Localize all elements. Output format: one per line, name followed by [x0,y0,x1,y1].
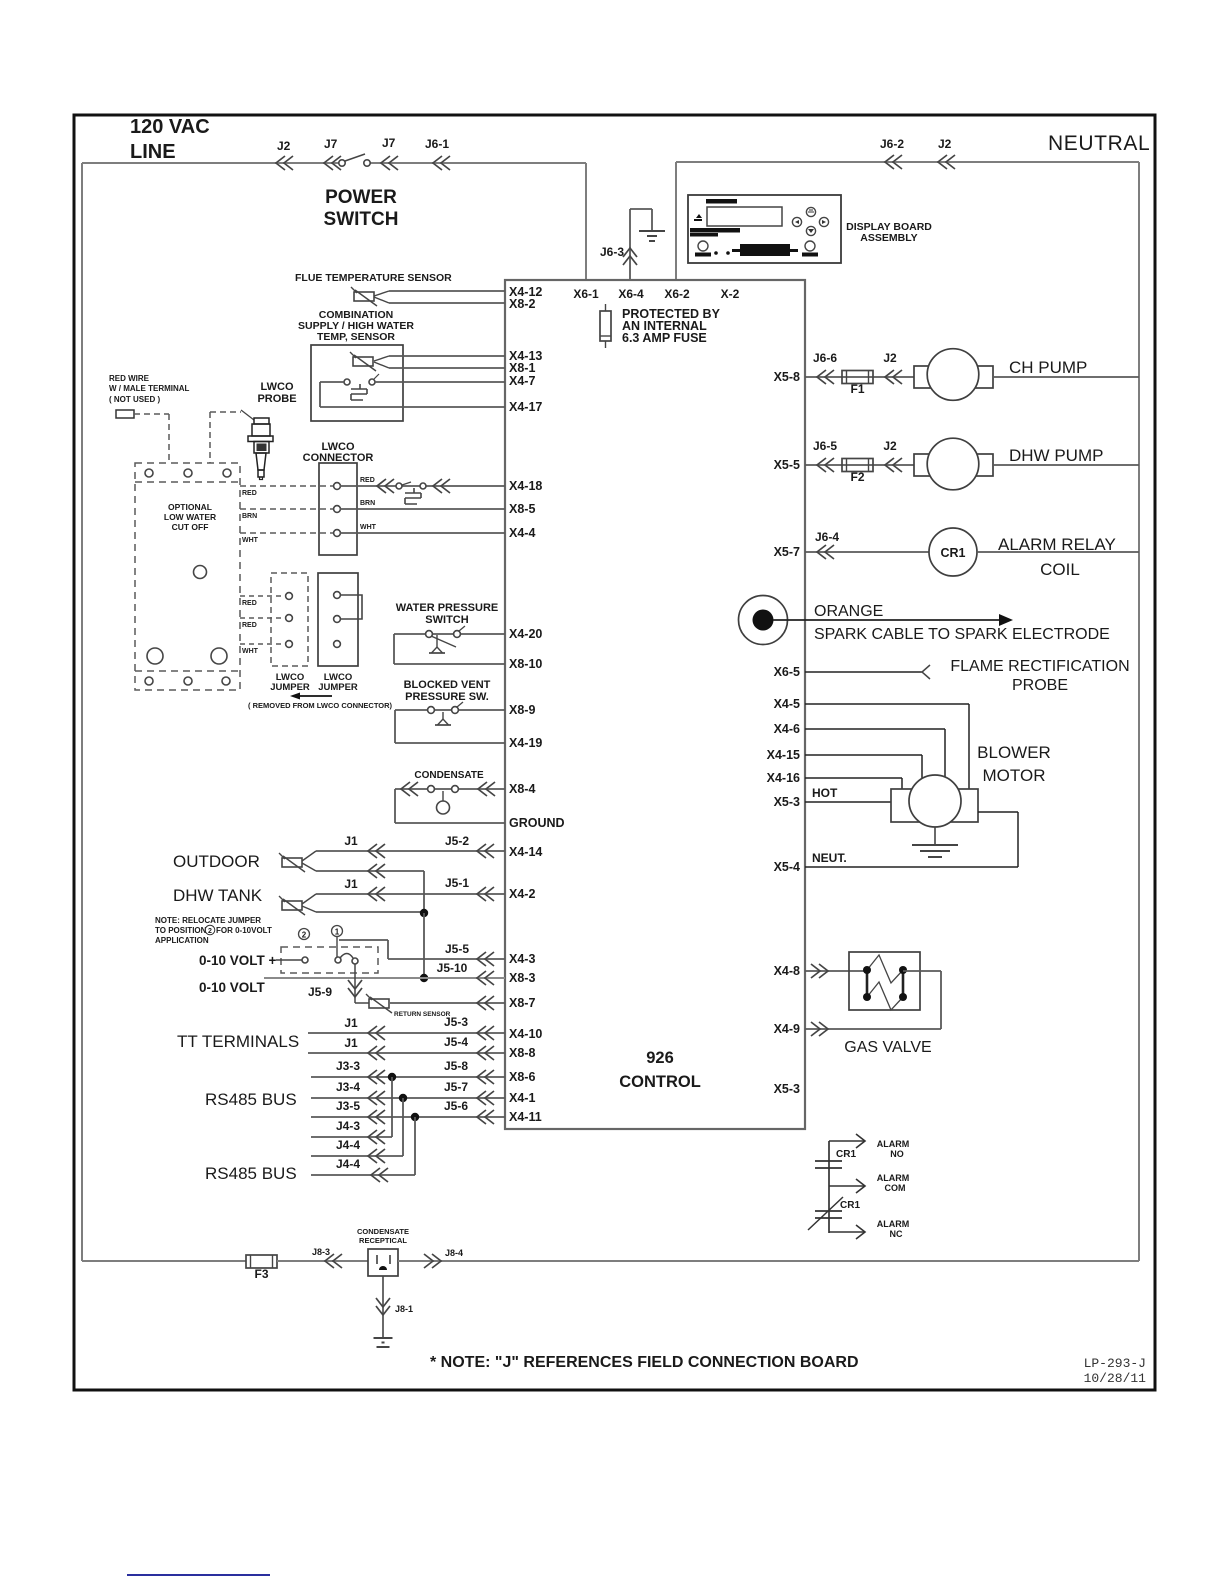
svg-text:BRN: BRN [360,500,375,507]
svg-text:NEUTRAL: NEUTRAL [1048,132,1150,155]
wire neutral top [676,161,1139,163]
high limit switch contact [344,379,350,385]
svg-text:SWITCH: SWITCH [425,614,468,626]
svg-text:CH PUMP: CH PUMP [1009,358,1087,377]
wire comb to X8-1 [389,367,505,369]
node dhw junction [420,909,428,917]
wire J3-5 to X4-11 [311,1116,505,1118]
alarm relay coil CR1 [929,528,977,576]
wire 0-10V+ lead [276,959,302,961]
wire 120VAC line top [82,162,342,164]
svg-text:J5-1: J5-1 [445,876,469,890]
border frame [74,115,1155,1390]
wire gas valve return [903,970,941,972]
blower motor M3 [891,789,978,822]
wire dashed jumper RED2 [240,617,285,619]
svg-text:SPARK CABLE TO SPARK ELECTRODE: SPARK CABLE TO SPARK ELECTRODE [814,626,1110,643]
svg-text:X5-3: X5-3 [774,1082,800,1096]
svg-text:2: 2 [302,931,307,940]
optional low water cut off box [135,463,240,690]
wire neutral right bus [1138,162,1140,1261]
svg-text:CR1: CR1 [840,1200,860,1211]
svg-text:X5-8: X5-8 [774,370,800,384]
jumper bracket [341,595,362,619]
wire WHT to X4-4 [340,532,505,534]
connector J2 dhw [885,458,902,472]
svg-text:CONTROL: CONTROL [619,1073,701,1091]
svg-text:DHW PUMP: DHW PUMP [1009,446,1103,465]
wire X4-9 [805,1028,941,1030]
svg-text:X8-8: X8-8 [509,1046,535,1060]
condensate receptacle [368,1249,398,1276]
alarm COM arrow [829,1185,864,1187]
svg-text:X4-15: X4-15 [767,748,800,762]
wire dashed probe to lwco box [209,412,211,463]
svg-text:OUTDOOR: OUTDOOR [173,852,260,871]
svg-text:J5-8: J5-8 [444,1059,468,1073]
wire dashed WHT to connector [240,532,333,534]
svg-text:X4-11: X4-11 [509,1110,542,1124]
svg-text:X4-1: X4-1 [509,1091,535,1105]
svg-text:J6-3: J6-3 [600,245,624,259]
svg-text:X4-8: X4-8 [774,964,800,978]
alarm NO arrow [829,1140,864,1142]
svg-text:CONDENSATE: CONDENSATE [414,770,484,781]
arrow removed [298,695,332,697]
svg-text:X8-3: X8-3 [509,971,535,985]
svg-text:NEUT.: NEUT. [812,851,847,865]
svg-text:J3-4: J3-4 [336,1080,360,1094]
svg-text:X4-14: X4-14 [509,845,542,859]
lwco box mid hole [194,566,207,579]
svg-text:X4-18: X4-18 [509,479,542,493]
lwco probe [248,418,273,480]
wire comb to X4-17 [320,381,344,383]
svg-text:LWCO: LWCO [261,381,294,393]
wire J3-3 to X8-6 [311,1076,505,1078]
svg-text:J5-5: J5-5 [445,942,469,956]
svg-text:GAS VALVE: GAS VALVE [844,1039,931,1056]
svg-text:J6-2: J6-2 [880,137,904,151]
svg-text:J6-5: J6-5 [813,439,837,453]
svg-text:J1: J1 [344,1036,358,1050]
svg-text:APPLICATION: APPLICATION [155,936,209,945]
node rs485 c [411,1113,419,1121]
lwco connector J10 [319,463,357,555]
wire J5-5 to X4-3 [339,939,388,941]
svg-text:RS485 BUS: RS485 BUS [205,1090,297,1109]
svg-text:X4-7: X4-7 [509,374,535,388]
wire dashed BRN to connector [240,508,333,510]
connector J8-4 [398,1260,1139,1262]
male terminal (not used) [116,410,134,418]
svg-text:X6-4: X6-4 [618,287,644,301]
svg-text:( REMOVED FROM LWCO CONNECTOR): ( REMOVED FROM LWCO CONNECTOR) [248,701,393,710]
svg-text:J6-4: J6-4 [815,530,839,544]
svg-text:NOTE: RELOCATE JUMPER: NOTE: RELOCATE JUMPER [155,916,261,925]
svg-text:6.3 AMP FUSE: 6.3 AMP FUSE [622,331,707,345]
svg-text:J6-1: J6-1 [425,137,449,151]
svg-text:X5-5: X5-5 [774,458,800,472]
wire dhw+ to X4-2 [316,893,505,895]
svg-text:WHT: WHT [360,524,377,531]
dhw pump motor M2 [914,454,993,476]
svg-text:CR1: CR1 [836,1149,856,1160]
svg-text:PROBE: PROBE [1012,677,1068,694]
svg-text:TT TERMINALS: TT TERMINALS [177,1032,299,1051]
wire left bus [81,163,83,1261]
svg-text:J6-6: J6-6 [813,351,837,365]
terminal jumper arc [340,954,353,959]
svg-text:RECEPTICAL: RECEPTICAL [359,1236,407,1245]
ground chassis top [639,230,665,232]
svg-text:X4-6: X4-6 [774,722,800,736]
svg-text:J4-4: J4-4 [336,1138,360,1152]
wire ch pump to neutral [993,376,1139,378]
ground blower [934,827,936,845]
svg-text:X4-4: X4-4 [509,526,535,540]
wire RED to X4-18 [340,485,505,487]
wire X5-4 neutral to blower [805,866,1018,868]
wire outdoor+ to X4-14 [316,850,505,852]
svg-text:GROUND: GROUND [509,816,565,830]
wire X5-8 to CH pump [805,376,914,378]
svg-text:ALARM: ALARM [877,1173,910,1183]
svg-text:BLOCKED VENT: BLOCKED VENT [404,679,491,691]
fuse F2 [842,459,873,472]
svg-text:X4-5: X4-5 [774,697,800,711]
wire J6-3 to chassis ground [629,209,631,280]
wire bus to J5-10 [423,913,425,978]
svg-text:X4-9: X4-9 [774,1022,800,1036]
svg-text:J2: J2 [883,351,897,365]
svg-text:LINE: LINE [130,141,176,163]
wire bv loop X4-19 [394,710,396,743]
svg-text:NO: NO [890,1149,904,1159]
svg-text:120 VAC: 120 VAC [130,116,210,138]
svg-text:BRN: BRN [242,513,257,520]
svg-text:J8-4: J8-4 [445,1248,463,1258]
spark terminal [739,596,788,645]
connector J6-3 [623,248,637,265]
wire J8-1 ground [382,1276,384,1338]
svg-text:FLUE TEMPERATURE SENSOR: FLUE TEMPERATURE SENSOR [295,272,452,284]
gas valve box [849,952,920,1010]
terminal 1 [335,957,341,963]
svg-text:JUMPER: JUMPER [318,682,358,693]
lwco jumper plug solid [318,573,358,666]
svg-text:J8-3: J8-3 [312,1247,330,1257]
alarm NC arrow [829,1231,864,1233]
svg-text:LP-293-J: LP-293-J [1084,1356,1146,1371]
svg-text:X5-7: X5-7 [774,545,800,559]
svg-text:J4-4: J4-4 [336,1157,360,1171]
svg-text:RED: RED [242,600,257,607]
svg-text:WHT: WHT [242,537,259,544]
svg-text:X4-20: X4-20 [509,627,542,641]
svg-text:X5-3: X5-3 [774,795,800,809]
wire outdoor- bus [316,870,424,872]
wire X4-5 to blower [805,703,969,705]
svg-text:X4-19: X4-19 [509,736,542,750]
svg-text:X4-17: X4-17 [509,400,542,414]
svg-text:J1: J1 [344,1016,358,1030]
svg-text:BLOWER: BLOWER [977,743,1051,762]
svg-text:J7: J7 [324,137,338,151]
connector J6-2 neutral [885,155,902,169]
wire X6-5 flame probe [805,671,922,673]
svg-text:X8-4: X8-4 [509,782,535,796]
connector J2 ch [885,370,902,384]
wire alarm contact bus [828,1141,830,1233]
svg-text:CONDENSATE: CONDENSATE [357,1227,409,1236]
svg-text:X8-6: X8-6 [509,1070,535,1084]
svg-text:J3-3: J3-3 [336,1059,360,1073]
svg-text:POWER: POWER [325,187,397,208]
wire X4-16 to blower [805,777,902,779]
combination sensor box [311,345,403,421]
wire condensate loop ground [394,789,396,823]
svg-text:PRESSURE SW.: PRESSURE SW. [405,691,489,703]
wire X5-3 hot to blower [805,801,891,803]
svg-text:LOW WATER: LOW WATER [164,512,216,522]
svg-text:OPTIONAL: OPTIONAL [168,502,212,512]
svg-text:X8-2: X8-2 [509,297,535,311]
lwco box holes [147,648,163,664]
position 1 marker [332,926,343,937]
svg-text:J5-10: J5-10 [437,961,468,975]
connector J6-1 [433,156,450,170]
node bus junction [420,974,428,982]
wire comb to X4-13 [389,355,505,357]
svg-text:X6-2: X6-2 [664,287,690,301]
svg-text:W / MALE TERMINAL: W / MALE TERMINAL [109,384,190,393]
wire display drop to X6-2 [675,162,677,280]
svg-text:J2: J2 [883,439,897,453]
wire TT1 to X4-10 [308,1032,505,1034]
svg-text:J1: J1 [344,834,358,848]
svg-text:J5-4: J5-4 [444,1035,468,1049]
ch pump motor M1 [914,366,993,388]
wire X4-8 to gas valve [805,970,867,972]
svg-text:X5-4: X5-4 [774,860,800,874]
svg-text:X8-7: X8-7 [509,996,535,1010]
node rs485 b [399,1094,407,1102]
svg-text:ASSEMBLY: ASSEMBLY [860,232,917,244]
svg-text:DHW TANK: DHW TANK [173,886,263,905]
svg-text:J2: J2 [277,139,291,153]
lwco box terminals top [145,469,153,477]
connector J2 line [276,156,293,170]
svg-text:J7: J7 [382,136,396,150]
blocked vent switch S3 [395,709,505,711]
svg-text:TO POSITION: TO POSITION [155,926,207,935]
svg-text:X8-10: X8-10 [509,657,542,671]
svg-text:WHT: WHT [242,648,259,655]
wire flue to X8-2 [389,302,505,304]
svg-text:RED: RED [242,490,257,497]
svg-text:ORANGE: ORANGE [814,603,883,620]
svg-text:X4-16: X4-16 [767,771,800,785]
fuse internal 6.3A [605,304,607,311]
wire return to X8-7 [390,1002,505,1004]
svg-text:* NOTE: "J" REFERENCES FIELD C: * NOTE: "J" REFERENCES FIELD CONNECTION … [430,1354,859,1371]
wire dashed terminal to lwco box [134,413,169,415]
svg-text:X8-5: X8-5 [509,502,535,516]
svg-text:NC: NC [890,1229,903,1239]
wire X4-15 to blower [805,754,922,756]
wire relay to neutral [977,551,1139,553]
wire J4-4 b [311,1174,415,1176]
svg-text:JUMPER: JUMPER [270,682,310,693]
wire J5-9 return sensor [354,964,356,1003]
wire spark cable [773,619,1000,621]
connector J2 neutral [938,155,955,169]
wire BRN to X8-5 [340,508,505,510]
power switch SW1 [324,156,341,170]
fuse F1 [842,371,873,384]
svg-text:10/28/11: 10/28/11 [1084,1371,1147,1386]
footer link line [127,1574,270,1576]
lwco box terminals bottom [145,677,153,685]
svg-text:RED WIRE: RED WIRE [109,374,150,383]
svg-text:F3: F3 [254,1267,268,1281]
0-10V jumper box dashed [281,947,378,973]
svg-text:FLAME RECTIFICATION: FLAME RECTIFICATION [950,658,1129,675]
svg-text:X4-10: X4-10 [509,1027,542,1041]
svg-text:CUT OFF: CUT OFF [172,522,209,532]
svg-text:J5-9: J5-9 [308,985,332,999]
svg-text:( NOT USED ): ( NOT USED ) [109,395,160,404]
gas valve coils [867,955,903,983]
ground bottom [374,1337,393,1339]
svg-text:RETURN SENSOR: RETURN SENSOR [394,1011,451,1018]
return sensor RT4 [369,999,389,1008]
svg-text:ALARM: ALARM [877,1139,910,1149]
svg-text:X8-1: X8-1 [509,361,535,375]
wire flue to X4-12 [389,290,505,292]
svg-text:TEMP, SENSOR: TEMP, SENSOR [317,331,395,343]
svg-text:COIL: COIL [1040,560,1080,579]
svg-text:J1: J1 [344,877,358,891]
svg-text:HOT: HOT [812,786,838,800]
svg-text:WATER PRESSURE: WATER PRESSURE [396,602,498,614]
svg-text:2: 2 [208,928,212,935]
svg-text:J5-6: J5-6 [444,1099,468,1113]
svg-text:926: 926 [646,1049,674,1067]
wire dhw pump to neutral [993,464,1139,466]
wire J3-4 to X4-1 [311,1097,505,1099]
lwco jumper plug dashed [271,573,308,666]
svg-text:ALARM: ALARM [877,1219,910,1229]
wire bottom bus [82,1260,246,1262]
svg-text:J5-7: J5-7 [444,1080,468,1094]
wire dhw- bus [316,911,424,913]
combination thermistor [353,357,373,366]
dhw tank sensor RT3 [282,901,302,910]
wire dashed RED to connector [240,485,333,487]
svg-text:RS485 BUS: RS485 BUS [205,1164,297,1183]
svg-text:RED: RED [242,622,257,629]
svg-text:J5-2: J5-2 [445,834,469,848]
wire X5-7 to relay [805,551,929,553]
svg-text:J8-1: J8-1 [395,1304,413,1314]
wire J5-10 to X8-3 [264,977,505,979]
svg-text:F2: F2 [850,470,864,484]
control board 926 [505,280,805,1129]
svg-text:PROBE: PROBE [257,393,296,405]
svg-text:J3-5: J3-5 [336,1099,360,1113]
svg-text:0-10 VOLT: 0-10 VOLT [199,980,266,995]
svg-text:X4-2: X4-2 [509,887,535,901]
svg-text:0-10 VOLT +: 0-10 VOLT + [199,953,277,968]
wire wps loop X8-10 [393,634,395,664]
wire J4-4 a [311,1155,403,1157]
display board assembly [688,195,841,263]
svg-text:1: 1 [335,928,340,937]
wire TT2 to X8-8 [308,1052,505,1054]
flue temperature sensor RT1 [354,292,374,301]
condensate switch S4 [395,788,505,790]
svg-text:X8-9: X8-9 [509,703,535,717]
svg-text:COM: COM [885,1183,906,1193]
wire J4-3 [311,1136,392,1138]
svg-text:FOR 0-10VOLT: FOR 0-10VOLT [216,926,272,935]
position 2 marker [299,929,310,940]
outdoor sensor RT2 [282,858,302,867]
svg-text:J5-3: J5-3 [444,1015,468,1029]
svg-text:X-2: X-2 [721,287,740,301]
svg-text:J2: J2 [938,137,952,151]
svg-text:X4-3: X4-3 [509,952,535,966]
fuse F3 [246,1255,277,1268]
node rs485 a [388,1073,396,1081]
wire dashed jumper RED1 [240,595,285,597]
svg-text:SWITCH: SWITCH [324,209,399,230]
svg-text:CR1: CR1 [940,546,965,560]
wire comb to X4-7 [375,381,505,383]
water pressure switch S2 [394,633,505,635]
wire X4-6 to blower [805,728,945,730]
connector J8-3 [325,1254,342,1268]
svg-text:RED: RED [360,477,375,484]
svg-text:X6-1: X6-1 [573,287,599,301]
wire X5-5 to DHW pump [805,464,914,466]
svg-text:MOTOR: MOTOR [983,766,1046,785]
wire dashed jumper WHT [240,643,285,645]
svg-text:F1: F1 [850,382,864,396]
svg-text:X6-5: X6-5 [774,665,800,679]
svg-text:J4-3: J4-3 [336,1119,360,1133]
